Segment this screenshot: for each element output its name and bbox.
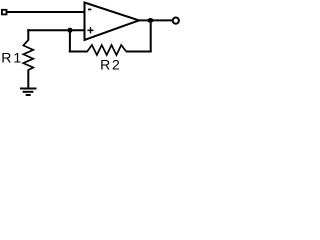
svg-text:R: R	[100, 57, 110, 73]
svg-text:R: R	[1, 50, 11, 66]
svg-text:1: 1	[13, 50, 21, 66]
svg-text:2: 2	[112, 57, 120, 73]
